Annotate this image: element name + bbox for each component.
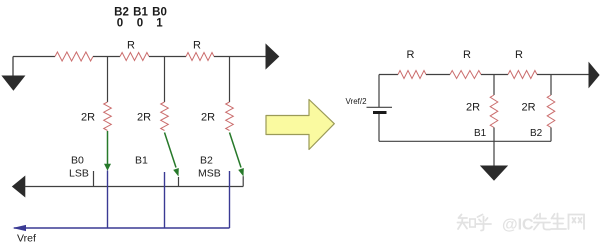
- wire: right circuit bottom rail: [379, 140, 551, 142]
- resistor 2R (B1 column): [161, 102, 169, 131]
- switch arrow SW B1 (thrown to ground bus, diagonal): [165, 133, 179, 177]
- switch arrow SW B0 (closed to Vref line, vertical): [104, 131, 111, 171]
- resistor 2R (B2 column): [226, 102, 234, 131]
- battery plate (-, short thick): [373, 111, 387, 114]
- node C: junction drop wire (B2 column): [229, 57, 231, 103]
- wire: rail between R1 and R2 (right circuit): [426, 74, 450, 76]
- svg-text:0: 0: [137, 18, 143, 30]
- resistor 2R (B0 column): [104, 102, 112, 131]
- ground (right circuit): [481, 141, 507, 180]
- wire: B1 leg bottom (right circuit): [493, 128, 495, 142]
- wire: B2 leg bottom (right circuit): [550, 128, 552, 142]
- wire: Vref stub (B2 column, blue): [229, 171, 231, 228]
- svg-text:1: 1: [156, 18, 163, 30]
- svg-text:R: R: [515, 49, 523, 61]
- resistor 2R (right circuit, B1 leg): [490, 95, 498, 128]
- resistor R (right circuit, second): [450, 71, 481, 79]
- wire: ground bus horizontal: [25, 186, 243, 188]
- wire: top rail from ground to first resistor: [13, 56, 55, 58]
- svg-text:B0: B0: [71, 155, 84, 167]
- ground (left circuit): [2, 57, 24, 91]
- svg-text:Vref/2: Vref/2: [346, 97, 368, 106]
- resistor (series, unlabeled, left ladder): [55, 52, 93, 61]
- wire: battery bottom lead: [378, 114, 380, 141]
- svg-text:@IC: @IC: [502, 217, 534, 234]
- resistor R (right circuit, first): [398, 71, 426, 79]
- svg-text:B2: B2: [530, 128, 543, 139]
- svg-text:Vref: Vref: [17, 233, 36, 245]
- svg-text:2R: 2R: [81, 112, 95, 124]
- equivalence block arrow (yellow): [266, 100, 334, 150]
- contact tick (B2 ground contact, bus end upturn): [242, 176, 244, 186]
- output arrow (right circuit Vout): [589, 63, 599, 87]
- wire: rail from third resistor to output arrow: [214, 56, 266, 58]
- wire: right circuit top rail start: [379, 74, 398, 76]
- node E: junction drop wire (right circuit, B2 leg): [550, 75, 552, 96]
- resistor 2R (right circuit, B2 leg): [547, 95, 555, 128]
- svg-text:2R: 2R: [201, 112, 215, 124]
- node B: junction drop wire (B1 column): [164, 57, 166, 103]
- svg-text:2R: 2R: [522, 102, 536, 114]
- ground-bus arrow (left, pointing left): [13, 177, 25, 197]
- svg-text:0: 0: [117, 18, 123, 30]
- contact tick (B0 ground contact): [93, 171, 95, 187]
- switch arrow SW B2 (thrown to ground bus, diagonal): [230, 133, 244, 177]
- svg-text:MSB: MSB: [198, 168, 221, 180]
- voltage source V1 (Vref/2 battery): [346, 75, 393, 142]
- wire: rail between first resistor and R (second): [93, 56, 120, 58]
- svg-text:B2: B2: [200, 155, 213, 167]
- contact tick (B1 ground contact): [178, 177, 180, 187]
- wire: Vref stub (B0 column, blue): [107, 171, 109, 229]
- svg-text:2R: 2R: [466, 102, 480, 114]
- output arrow (left circuit Vout): [266, 45, 279, 69]
- svg-text:LSB: LSB: [69, 168, 89, 180]
- svg-text:R: R: [407, 49, 415, 61]
- wire: rail between second and third resistors: [149, 56, 186, 58]
- node A: junction drop wire (B0 column): [107, 57, 109, 103]
- svg-text:R: R: [463, 49, 471, 61]
- wire: battery top lead: [378, 75, 380, 108]
- battery plate (+, long): [367, 106, 393, 108]
- svg-text:R: R: [193, 40, 201, 52]
- wire: Vref bus horizontal (blue): [14, 227, 230, 229]
- watermark 知乎 @IC先生网 (drawn as light strokes): [458, 214, 585, 231]
- resistor R (right circuit, third): [508, 71, 537, 79]
- resistor R (second series, left ladder): [120, 53, 149, 61]
- svg-text:B1: B1: [135, 155, 148, 167]
- wire: Vref stub (B1 column, blue): [164, 172, 166, 228]
- resistor R (third series, left ladder): [186, 53, 214, 61]
- node D: junction drop wire (right circuit, B1 leg): [493, 75, 495, 96]
- svg-text:B1: B1: [474, 128, 487, 139]
- Vref bus arrowhead (blue, pointing left): [13, 225, 27, 231]
- wire: rail from R3 to output arrow (right circuit): [537, 74, 589, 76]
- wire: rail between R2 and R3 (right circuit): [481, 74, 508, 76]
- svg-text:2R: 2R: [137, 112, 151, 124]
- svg-text:R: R: [127, 40, 135, 52]
